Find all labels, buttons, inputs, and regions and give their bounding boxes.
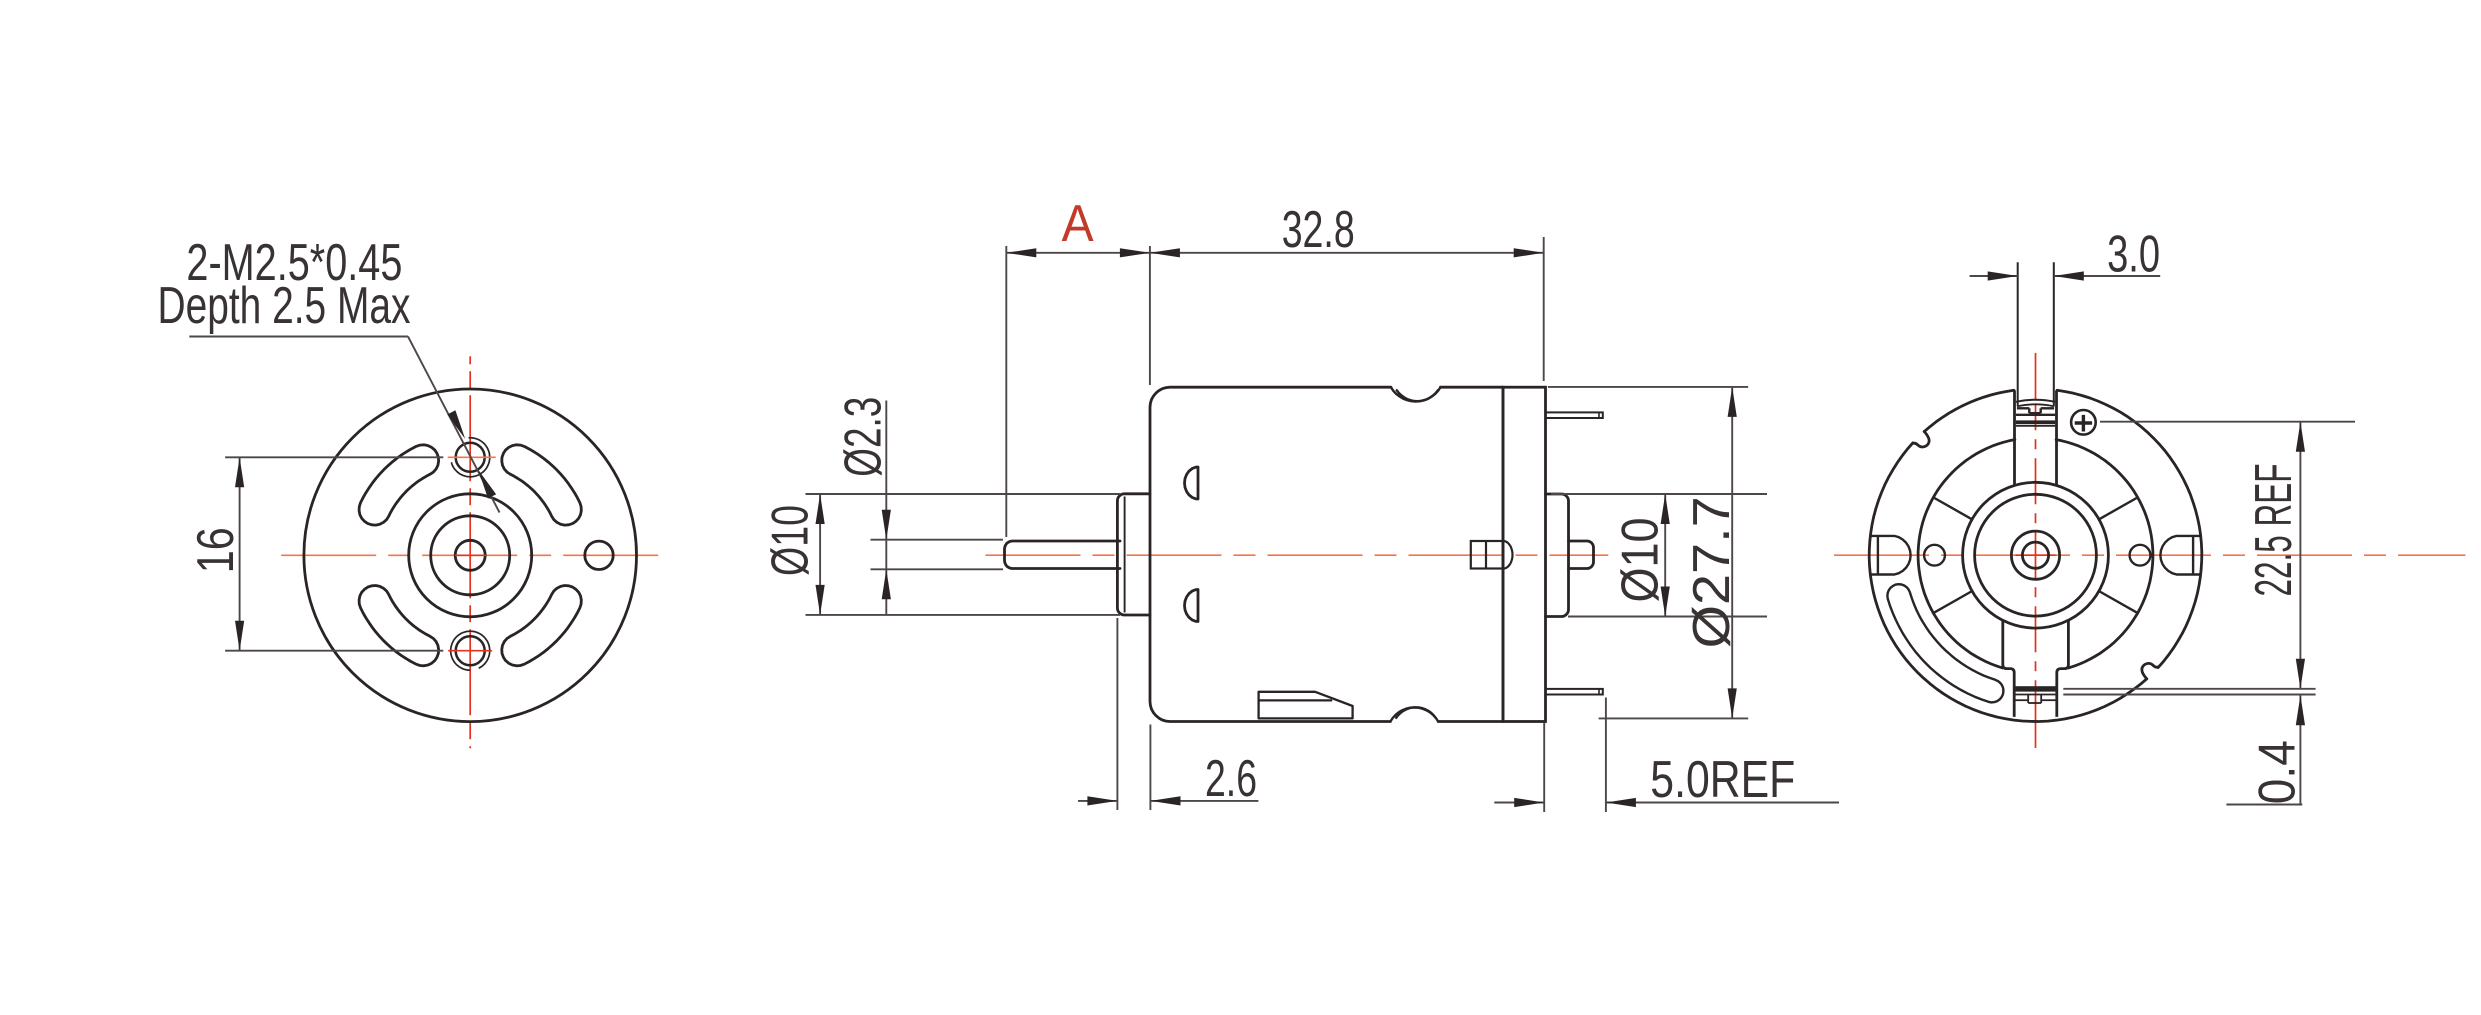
rear view: screw	[2071, 410, 2096, 435]
front view: top hole thread arc	[452, 438, 490, 477]
rear view: center mark	[2016, 554, 2056, 556]
rear view: bottom arm shoulder right	[2057, 665, 2069, 717]
front view: bottom-left vent slot	[359, 586, 439, 666]
side view: centerline	[986, 554, 1609, 556]
front view: top hole tick	[448, 456, 496, 458]
side view: top terminal	[1546, 412, 1603, 418]
leader underline	[189, 336, 408, 338]
svg-text:32.8: 32.8	[1282, 201, 1355, 259]
side view: can vent bottom	[1185, 590, 1199, 622]
dim A extension right	[1149, 246, 1151, 385]
front view: side hole	[585, 541, 613, 569]
dim 0.4 line	[2226, 695, 2305, 804]
leader diagonal	[408, 337, 500, 513]
rear view: top terminal block	[2016, 400, 2055, 426]
dim Ø10 right extension bottom	[1568, 616, 1767, 618]
dim 3.0 line right	[2054, 271, 2160, 280]
dim Ø2.3 line	[882, 401, 891, 616]
rear view: hub circle	[2011, 531, 2059, 579]
rear view: left rim cutout	[1870, 536, 1910, 575]
dim 5.0REF extension left	[1543, 723, 1545, 812]
rear view: spoke rib 150.5deg	[1934, 498, 1971, 519]
side view: bottom louver	[1259, 692, 1353, 719]
dim Ø10 left extension top	[806, 493, 1121, 495]
rear view: centerline horizontal	[1834, 554, 2466, 556]
rear view: spoke rib 330.5deg	[2100, 592, 2137, 613]
rear view: bottom terminal block	[2014, 686, 2057, 703]
rear view: rim notch upper-left	[1913, 432, 1929, 448]
front view: bottom mounting hole M2.5	[456, 636, 485, 665]
svg-text:3.0: 3.0	[2107, 226, 2160, 284]
rear view: right brush hole	[2130, 545, 2151, 566]
leader second arrow	[478, 470, 496, 499]
side view: motor can	[1150, 387, 1503, 721]
rear view: boss outer circle	[1963, 482, 2109, 628]
svg-text:Ø2.3: Ø2.3	[834, 397, 892, 477]
rear view: rim notch lower-right	[2142, 663, 2158, 679]
front view: bottom hole tick	[448, 650, 492, 652]
side view: bottom terminal	[1546, 689, 1603, 695]
front view: top-right vent slot	[502, 445, 582, 525]
front view: top mounting hole M2.5	[456, 443, 485, 472]
side view: bottom crimp notch	[1390, 707, 1438, 721]
dim A line	[1006, 248, 1150, 257]
rear view: spoke rib 29.5deg	[2100, 498, 2137, 519]
rear view: top terminal wire left	[2017, 262, 2019, 406]
dim Ø2.3 extension top	[871, 539, 1004, 541]
dim 5.0REF extension right	[1605, 698, 1607, 813]
side view: can vent top	[1185, 467, 1199, 499]
rear view: top arm right edge	[2055, 390, 2058, 484]
svg-text:2.6: 2.6	[1205, 750, 1257, 808]
dim 32.8 line	[1150, 248, 1544, 257]
side view: bushing flange Ø10	[1117, 494, 1150, 615]
front view: bushing circle	[431, 516, 510, 595]
svg-text:0.4: 0.4	[2249, 740, 2307, 804]
dim Ø10 left line	[816, 494, 825, 615]
svg-text:5.0REF: 5.0REF	[1650, 751, 1795, 809]
front view: top-left vent slot	[359, 445, 439, 525]
rear view: centerline vertical middle	[2035, 404, 2037, 716]
dim Ø10 left extension bottom	[806, 614, 1121, 616]
dim A extension left	[1005, 246, 1007, 537]
side view: end cap	[1503, 387, 1546, 721]
dim 16 line	[235, 457, 244, 650]
side view: rear shaft stub	[1569, 541, 1594, 569]
dim 2.6 extension left	[1116, 618, 1118, 810]
svg-text:A: A	[1062, 195, 1094, 253]
rear view: spoke rib 209.5deg	[1934, 592, 1971, 613]
rear view: bottom arm shoulder left	[2003, 665, 2014, 717]
rear view: plate ring circle	[1918, 440, 2153, 668]
dim Ø27.7 extension top	[1548, 386, 1748, 388]
rear view: top terminal wire right	[2053, 262, 2055, 406]
front view: bearing boss circle	[409, 494, 532, 617]
svg-text:Depth 2.5 Max: Depth 2.5 Max	[158, 277, 411, 335]
dim 16 extension top	[225, 456, 443, 458]
rear view: shaft circle	[2022, 542, 2048, 568]
dim 0.4 extension lines	[2063, 689, 2315, 695]
dim Ø27.7 line	[1728, 387, 1737, 719]
rear view: top arm left edge	[2013, 390, 2016, 484]
dim 22.5 extension top	[2100, 421, 2355, 423]
dim Ø2.3 extension bottom	[871, 568, 1004, 570]
front view: shaft circle	[455, 540, 485, 570]
svg-text:Ø10: Ø10	[1612, 518, 1670, 603]
side view: inner bearing retainer	[1471, 541, 1513, 569]
dim 32.8 extension right	[1543, 237, 1545, 381]
rear view: outer rim circle	[1869, 390, 2202, 721]
dim 3.0 line left	[1970, 271, 2018, 280]
front view: centerline horizontal	[281, 554, 665, 556]
dim Ø27.7 extension bottom	[1599, 717, 1749, 719]
dim 22.5 line	[2296, 422, 2305, 689]
front view: center mark	[455, 554, 486, 556]
rear view: boss inner circle	[1975, 494, 2097, 616]
rear view: centerline vertical bottom	[2035, 716, 2037, 748]
dim 2.6 line	[1078, 796, 1258, 805]
svg-text:Ø10: Ø10	[761, 505, 819, 576]
rear view: right rim cutout	[2160, 536, 2200, 575]
rear view: bottom arm wide left	[2001, 620, 2004, 665]
front view: centerline vertical	[469, 356, 471, 748]
front view: bottom-right vent slot	[502, 586, 582, 666]
rear view: bottom arm wide right	[2067, 620, 2070, 665]
svg-text:22.5 REF: 22.5 REF	[2245, 464, 2303, 597]
side view: rear bearing housing Ø10	[1546, 494, 1569, 617]
side view: front shaft Ø2.3	[1005, 541, 1121, 569]
dim Ø10 right line	[1661, 494, 1670, 617]
rear view: centerline vertical top	[2035, 353, 2037, 400]
svg-text:Ø27.7: Ø27.7	[1683, 496, 1741, 648]
front view: bottom hole thread arc	[451, 631, 490, 670]
svg-text:16: 16	[187, 527, 245, 573]
dim 5.0REF line	[1494, 798, 1839, 807]
rear view: arc slot	[1887, 584, 2003, 702]
side view: top crimp notch	[1391, 387, 1441, 401]
dim Ø10 right extension top	[1551, 493, 1767, 495]
dim 16 extension bottom	[225, 650, 443, 652]
dim 2.6 extension right	[1149, 725, 1151, 811]
front view: outer can circle Ø27.7	[304, 389, 637, 722]
rear view: left brush hole	[1924, 545, 1945, 566]
